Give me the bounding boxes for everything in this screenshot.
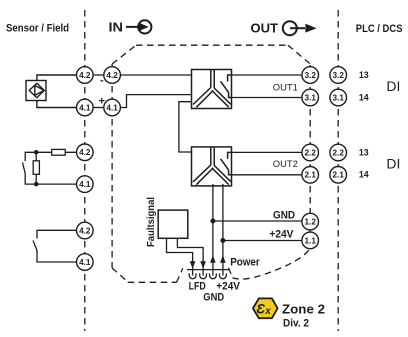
U2 output contact	[228, 152, 232, 158]
svg-text:+: +	[99, 96, 105, 108]
junction dot +24V	[220, 238, 225, 243]
IN icon	[126, 20, 151, 33]
svg-text:4.2: 4.2	[79, 226, 91, 235]
svg-text:DI: DI	[386, 79, 400, 94]
U1 output contact	[228, 75, 232, 82]
arrow up +24V pin a	[210, 255, 216, 263]
node 4.1 field b	[77, 176, 94, 193]
wire device 4.1 zigzag to isolator U1 input	[120, 95, 191, 108]
svg-text:Zone 2: Zone 2	[282, 301, 325, 316]
wire field 4.1 to device 4.1	[93, 107, 104, 109]
proximity sensor B1	[26, 75, 77, 108]
svg-text:13: 13	[359, 148, 369, 158]
B1 wires	[37, 75, 77, 81]
svg-text:1.2: 1.2	[305, 218, 317, 227]
PLC boundary dashed line	[337, 10, 339, 331]
outline jog right of connector	[229, 268, 233, 278]
junction dot sensor2 bottom	[34, 182, 39, 187]
outline jog up left of connector	[177, 268, 183, 282]
outline bottom-right curve	[233, 248, 311, 279]
svg-text:13: 13	[359, 70, 369, 80]
outline right vertical	[309, 65, 311, 248]
svg-text:GND: GND	[203, 291, 224, 303]
svg-text:Faultsignal: Faultsignal	[146, 197, 157, 247]
Ex logo	[253, 298, 278, 318]
terminal 3.1	[302, 89, 319, 106]
series resistor R1	[52, 149, 65, 155]
node 4.1 field a	[77, 99, 94, 116]
svg-text:4.1: 4.1	[106, 103, 118, 112]
arrow down GND pin	[200, 261, 206, 269]
outline bottom edge	[128, 281, 177, 283]
svg-text:2.2: 2.2	[305, 148, 317, 157]
svg-text:4.2: 4.2	[106, 71, 118, 80]
field boundary dashed line (Sensor/Field)	[84, 10, 86, 331]
wire field 4.2 to device 4.2	[93, 74, 104, 76]
switch S2	[33, 230, 77, 262]
svg-text:IN: IN	[109, 20, 124, 34]
svg-text:2.1: 2.1	[333, 171, 345, 180]
svg-text:1.1: 1.1	[305, 236, 317, 245]
node 2.2 PLC	[330, 144, 347, 161]
outline top-left diagonal	[112, 45, 136, 64]
device outline dashed	[112, 45, 311, 282]
svg-text:3.1: 3.1	[333, 93, 345, 102]
svg-text:3.1: 3.1	[305, 93, 317, 102]
socket cup +24V a	[210, 273, 217, 278]
node 4.2 field b	[77, 144, 94, 161]
svg-text:2.1: 2.1	[305, 171, 317, 180]
svg-text:x: x	[264, 306, 271, 317]
terminal 4.2	[104, 67, 121, 84]
svg-text:PLC / DCS: PLC / DCS	[356, 23, 403, 35]
terminal 2.1	[302, 167, 319, 184]
parallel resistor R2	[33, 161, 39, 175]
node 4.1 field c	[77, 254, 94, 271]
svg-text:4.1: 4.1	[79, 103, 91, 112]
svg-text:OUT2: OUT2	[273, 159, 298, 170]
outline bottom-left diagonal	[112, 268, 128, 282]
+24V wire to 1.1	[223, 240, 302, 242]
svg-text:DI: DI	[386, 157, 400, 172]
terminal 2.2	[302, 144, 319, 161]
wire OUT1 top to 3.2	[232, 74, 302, 76]
power wire left vertical	[212, 184, 214, 276]
socket cup LFD	[189, 273, 196, 278]
svg-text:14: 14	[359, 92, 369, 102]
svg-text:OUT1: OUT1	[273, 82, 298, 93]
socket cup +24V b	[220, 273, 227, 278]
svg-text:4.2: 4.2	[79, 71, 91, 80]
svg-text:Div. 2: Div. 2	[283, 318, 309, 330]
socket cup GND	[200, 273, 207, 278]
svg-text:4.1: 4.1	[79, 258, 91, 267]
terminal 3.2	[302, 67, 319, 84]
svg-text:-: -	[100, 75, 104, 87]
terminal 1.2	[302, 213, 319, 230]
svg-text:4.1: 4.1	[79, 180, 91, 189]
svg-text:3.2: 3.2	[333, 71, 345, 80]
wire OUT2 bottom to 2.1	[232, 174, 303, 176]
node 2.1 PLC	[330, 167, 347, 184]
svg-text:OUT: OUT	[251, 21, 279, 36]
svg-text:2.2: 2.2	[333, 148, 345, 157]
wire loop-through U1 to U2	[179, 102, 192, 152]
arrow up +24V pin b	[220, 255, 226, 263]
terminal circles	[77, 67, 347, 271]
svg-text:Ɛ: Ɛ	[256, 302, 265, 317]
connector separation line	[187, 269, 229, 271]
wire device 4.2 to isolator U1 input	[120, 74, 191, 76]
wire OUT2 top to 2.2	[232, 151, 303, 153]
fault signal box	[158, 210, 188, 238]
svg-text:3.2: 3.2	[305, 71, 317, 80]
connector socket cups	[189, 273, 226, 278]
terminal 1.1	[302, 232, 319, 249]
outline top edge	[136, 44, 288, 46]
outline left vertical	[111, 64, 113, 268]
isolator U1	[192, 70, 232, 109]
junction dot GND	[210, 219, 215, 224]
fault wire to LFD pin	[167, 238, 193, 275]
outline top-right diagonal	[288, 45, 312, 65]
svg-text:GND: GND	[273, 209, 295, 221]
arrow down LFD	[190, 261, 196, 269]
node 3.2 PLC	[330, 67, 347, 84]
node 4.2 field c	[77, 222, 94, 239]
node 3.1 PLC	[330, 89, 347, 106]
svg-text:Power: Power	[230, 257, 260, 269]
fault wire to GND pin	[177, 238, 203, 275]
power wire right vertical	[222, 184, 224, 276]
node 4.2 field a	[77, 67, 94, 84]
svg-text:14: 14	[359, 170, 369, 180]
svg-text:4.2: 4.2	[79, 148, 91, 157]
junction dot sensor2 top	[34, 150, 39, 155]
svg-text:Sensor / Field: Sensor / Field	[6, 23, 69, 35]
terminal 4.1	[104, 99, 121, 116]
switch with resistors S1	[23, 149, 77, 184]
svg-text:+24V: +24V	[269, 229, 294, 241]
OUT icon	[283, 21, 317, 35]
isolator U2	[192, 147, 232, 186]
GND wire to 1.2	[213, 220, 303, 222]
wire OUT1 bottom to 3.1	[232, 97, 303, 99]
